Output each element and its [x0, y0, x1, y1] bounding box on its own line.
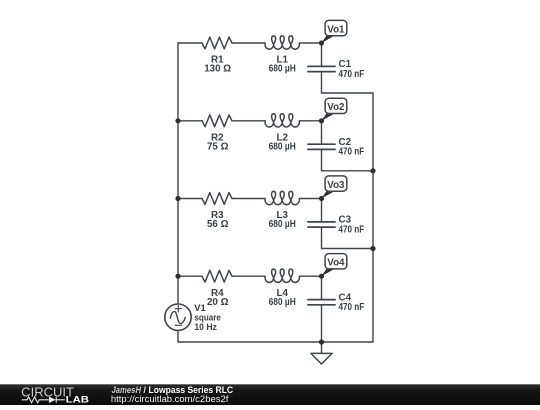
wire: node Vo2 down to C2	[321, 121, 323, 144]
svg-text:Vo2: Vo2	[327, 102, 345, 113]
inductor L4	[265, 269, 299, 282]
junction on left bus y=198.5	[175, 196, 180, 201]
capacitor C3 plates	[308, 222, 335, 227]
node Vo1 junction dot	[319, 40, 324, 45]
inductor L1	[265, 36, 299, 49]
voltage source V1 sine glyph	[170, 311, 185, 323]
svg-text:470 nF: 470 nF	[339, 147, 365, 158]
svg-text:470 nF: 470 nF	[339, 224, 365, 235]
capacitor C1 plates	[308, 66, 335, 71]
svg-text:680 µH: 680 µH	[269, 297, 296, 308]
junction on left bus y=276.2	[175, 274, 180, 279]
junction on right bus y=248.5	[370, 246, 375, 251]
svg-text:680 µH: 680 µH	[269, 64, 296, 75]
svg-text:470 nF: 470 nF	[339, 69, 365, 80]
footer logo diode cathode bar + wire	[56, 399, 65, 401]
wire: node Vo1 down to C1	[321, 43, 323, 66]
svg-text:Vo1: Vo1	[327, 24, 345, 35]
svg-text:130 Ω: 130 Ω	[204, 64, 231, 75]
node label Vo4 callout	[322, 254, 347, 277]
wire: left vertical bus (V1 bottom to bottom wire)	[177, 330, 179, 342]
footer logo diode triangle	[49, 397, 56, 403]
node label Vo1 callout	[322, 20, 347, 43]
resistor R3	[202, 193, 232, 205]
wire: C4 bottom to ground wire	[321, 305, 323, 342]
svg-text:Vo3: Vo3	[327, 180, 345, 191]
wire: node Vo4 down to C4	[321, 276, 323, 299]
svg-text:http://circuitlab.com/c2bes2f: http://circuitlab.com/c2bes2f	[111, 393, 229, 404]
capacitor C2 plates	[308, 144, 335, 149]
wire: C1 bottom to right bus	[322, 72, 374, 93]
wire: row 2 left segment	[178, 120, 202, 122]
wire: C3 bottom to right bus	[322, 227, 374, 248]
wire: right vertical bus	[372, 93, 374, 342]
inductor L3	[265, 191, 299, 204]
wire: row 2 middle segment	[232, 120, 265, 122]
wire: row 3 left segment	[178, 198, 202, 200]
wire: row 3 segment to node Vo3	[299, 198, 321, 200]
node Vo3 junction dot	[319, 196, 324, 201]
junction on left bus y=120.8	[175, 118, 180, 123]
voltage source V1 plus sign	[175, 306, 181, 312]
junction: C4 / ground on bottom wire	[319, 339, 324, 344]
ground symbol triangle	[311, 353, 332, 364]
wire: row 4 left segment	[178, 275, 202, 277]
node label Vo2 callout	[322, 98, 347, 121]
svg-text:Vo4: Vo4	[327, 258, 345, 269]
svg-text:75 Ω: 75 Ω	[207, 141, 229, 152]
wire: row 4 middle segment	[232, 275, 265, 277]
resistor R4	[202, 270, 232, 282]
capacitor C4 plates	[308, 300, 335, 305]
svg-text:470 nF: 470 nF	[339, 302, 365, 313]
node Vo4 junction dot	[319, 274, 324, 279]
voltage source V1 circle	[165, 304, 191, 330]
resistor R1	[202, 37, 232, 49]
wire: row 1 segment to node Vo1	[299, 42, 321, 44]
wire: left vertical bus (row1 down to V1 top)	[177, 43, 179, 304]
wire: row 2 segment to node Vo2	[299, 120, 321, 122]
wire: row 1 left segment	[178, 42, 202, 44]
resistor R2	[202, 115, 232, 127]
wire: C2 bottom to right bus	[322, 150, 374, 171]
wire: bottom ground wire	[178, 341, 373, 343]
footer logo resistor glyph	[22, 397, 65, 403]
voltage source V1 minus sign	[175, 324, 181, 326]
junction on right bus y=170.8	[370, 168, 375, 173]
svg-text:680 µH: 680 µH	[269, 219, 296, 230]
wire: row 4 segment to node Vo4	[299, 275, 321, 277]
wire: row 3 middle segment	[232, 198, 265, 200]
svg-text:680 µH: 680 µH	[269, 141, 296, 152]
node Vo2 junction dot	[319, 118, 324, 123]
svg-text:20 Ω: 20 Ω	[207, 297, 229, 308]
ground stub wire	[321, 342, 323, 353]
svg-text:10 Hz: 10 Hz	[194, 321, 217, 332]
svg-text:LAB: LAB	[66, 395, 90, 405]
inductor L2	[265, 114, 299, 127]
svg-text:56 Ω: 56 Ω	[207, 219, 229, 230]
node label Vo3 callout	[322, 176, 347, 199]
wire: row 1 middle segment	[232, 42, 265, 44]
wire: node Vo3 down to C3	[321, 199, 323, 222]
